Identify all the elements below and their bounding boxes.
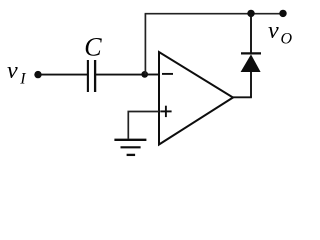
wire junction to op-amp inverting input: [145, 74, 159, 76]
ground symbol: [114, 140, 146, 155]
svg-text:v: v: [268, 18, 279, 44]
wire feedback top horizontal: [145, 13, 283, 15]
op-amp inverting input minus sign: [162, 73, 173, 75]
op-amp U1 triangle: [159, 52, 233, 145]
node vI input terminal: [34, 71, 41, 78]
svg-text:C: C: [84, 33, 102, 62]
wire top junction down to diode cathode: [250, 13, 252, 53]
label vI: [7, 58, 26, 87]
node junction top (diode tap): [247, 10, 254, 17]
node junction at inverting input: [141, 71, 148, 78]
label vO: [268, 18, 293, 48]
diode D (anode triangle): [241, 54, 261, 72]
node vO output terminal: [279, 10, 286, 17]
svg-text:I: I: [19, 70, 26, 87]
diode D (cathode bar): [241, 52, 261, 54]
wire input terminal to capacitor: [38, 74, 87, 76]
svg-text:v: v: [7, 58, 18, 84]
wire capacitor to inverting junction: [96, 74, 145, 76]
wire feedback vertical: [144, 14, 146, 75]
svg-text:O: O: [281, 31, 293, 48]
wire non-inverting input to ground stub: [128, 112, 159, 139]
wire op-amp output: [233, 96, 252, 98]
wire diode anode down to output corner: [250, 72, 252, 98]
op-amp non-inverting input plus sign: [160, 106, 171, 117]
capacitor C: [88, 60, 95, 92]
